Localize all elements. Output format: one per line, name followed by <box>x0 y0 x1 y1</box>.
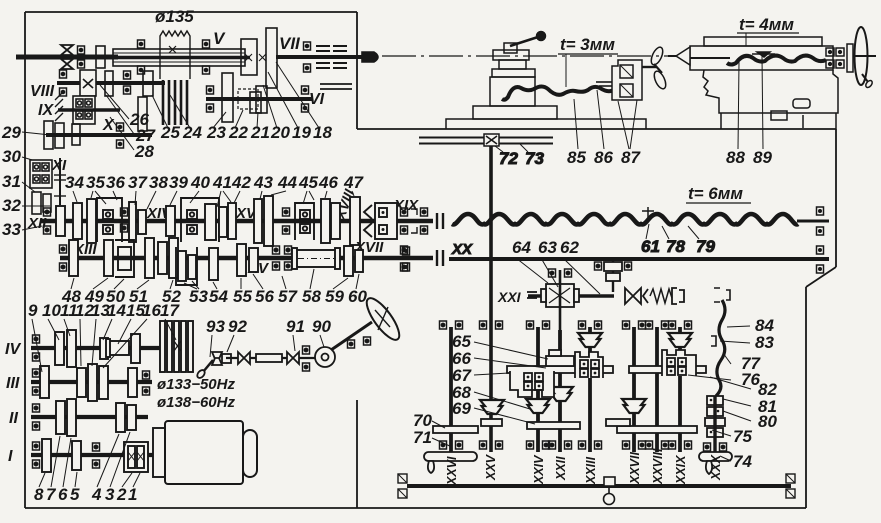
lube capsule XXX <box>699 452 732 474</box>
leader 67 <box>474 373 509 375</box>
top plate <box>704 37 822 46</box>
svg-text:ø138−60Hz: ø138−60Hz <box>157 394 235 411</box>
hollow shaft 58 <box>292 248 340 269</box>
worm vertical shaft <box>559 270 562 330</box>
svg-text:92: 92 <box>228 317 247 336</box>
leader 66 <box>474 358 546 368</box>
bearing block XI <box>30 160 52 188</box>
XXVIII top bearings <box>646 321 669 329</box>
svg-text:t= 3мм: t= 3мм <box>560 35 615 54</box>
cone clutch XIX chevrons <box>364 205 372 237</box>
gear III c <box>88 364 97 401</box>
XXVII bottom bearings <box>623 441 646 449</box>
leader 86 <box>597 90 604 149</box>
gear 34 <box>73 203 82 239</box>
rod to wing nut <box>642 66 656 68</box>
feed rod right bearings <box>817 246 824 273</box>
flexible clamp mid <box>711 336 716 346</box>
rack right end marks <box>786 474 795 498</box>
XXIV top bearings <box>527 321 550 329</box>
gear XII left <box>56 206 65 236</box>
svg-text:29: 29 <box>1 123 21 142</box>
leader 84 <box>727 326 750 327</box>
svg-text:86: 86 <box>594 148 613 167</box>
svg-text:18: 18 <box>313 123 332 142</box>
flexible shaft XXX wavy <box>716 300 725 396</box>
svg-text:58: 58 <box>302 287 321 306</box>
numbers 34-47 <box>65 173 364 192</box>
cross slide body <box>490 77 535 106</box>
leadscrew end line <box>797 220 829 223</box>
svg-text:4: 4 <box>91 485 102 504</box>
shaft XXVIII <box>655 327 659 452</box>
u-joint 1 <box>238 352 250 364</box>
motor clutch block <box>124 442 148 472</box>
gear under spindle end <box>250 92 261 113</box>
handwheel plate <box>847 44 853 72</box>
tailstock screw wave t=4mm <box>727 56 826 65</box>
XXV bottom bearings <box>480 441 503 449</box>
shift frame 36 <box>97 198 122 242</box>
rack bar XXVI <box>433 426 478 433</box>
spindle nose flange <box>241 39 266 75</box>
VIII bearing <box>60 70 67 96</box>
shaft XII-XIV-XVI-XVIII <box>40 219 433 223</box>
svg-text:III: III <box>6 375 20 392</box>
enclosure border left <box>24 12 26 508</box>
gear 51 <box>145 238 154 278</box>
shaft XXIX <box>678 327 682 452</box>
svg-text:7: 7 <box>46 485 57 504</box>
leader 72 <box>495 146 503 152</box>
flexible top bracket <box>714 288 730 302</box>
numbers 9-17 <box>28 301 180 320</box>
body lock detail <box>793 99 810 108</box>
gear on VIII mid <box>105 71 113 96</box>
slider tab 66 <box>546 350 574 366</box>
leaders 26 27 28 <box>100 85 134 150</box>
rack bar right <box>617 426 697 433</box>
svg-text:ø135: ø135 <box>155 7 194 26</box>
gearbox block left <box>510 371 554 397</box>
wheel bearing marks <box>348 337 371 348</box>
tailstock body <box>703 70 838 129</box>
handwheel ellipse <box>361 294 404 344</box>
rack shaft <box>407 484 791 488</box>
bevel bowtie right <box>625 288 641 304</box>
svg-text:8: 8 <box>34 485 44 504</box>
svg-text:88: 88 <box>726 148 745 167</box>
leader 62 <box>563 258 600 294</box>
XXVI top bearings <box>440 321 463 329</box>
leaders 48-60 <box>71 278 74 289</box>
shaft VIII <box>57 81 165 85</box>
leader 87b <box>630 100 637 149</box>
belt lines to motor <box>163 80 187 125</box>
crank lever <box>510 37 538 46</box>
X right bearing <box>117 123 124 148</box>
cone clutch XIX box <box>375 203 397 239</box>
svg-text:38: 38 <box>149 173 168 192</box>
svg-text:54: 54 <box>209 287 228 306</box>
shaft XXVII <box>632 327 636 452</box>
leader 92 <box>227 335 234 352</box>
leader 85 <box>574 99 578 149</box>
motor body <box>165 421 243 484</box>
II left bearing <box>33 404 40 430</box>
gears on X <box>44 121 80 149</box>
XXX bottom bearings <box>704 443 727 451</box>
leader 77 <box>723 353 731 364</box>
gear 43 <box>254 199 262 243</box>
vertical drive shaft XXV upper <box>489 146 493 296</box>
center arrow tip <box>362 52 378 62</box>
quill screw shaft line <box>690 57 730 59</box>
feed rod XX <box>449 257 829 261</box>
shaft XXV lower <box>489 296 493 452</box>
leader 79 <box>688 226 699 239</box>
XXIV bottom bearings <box>527 441 550 449</box>
hub circle <box>315 347 335 367</box>
svg-text:20: 20 <box>270 123 290 142</box>
svg-text:78: 78 <box>666 237 685 256</box>
saddle base <box>473 106 557 119</box>
gear 54 <box>209 248 218 280</box>
frame 53 <box>176 247 197 285</box>
top slide <box>492 69 535 77</box>
leader 63 <box>541 258 558 287</box>
diagonal shaft to wheel <box>331 322 372 350</box>
bracket stop <box>672 288 684 304</box>
svg-text:XXII: XXII <box>554 456 568 481</box>
numbers 88 89 <box>726 148 772 167</box>
leader 82 <box>710 377 751 389</box>
shaft VII <box>276 55 362 59</box>
shaft XXIV <box>536 327 540 452</box>
shaft VI <box>206 97 313 101</box>
gear II b <box>67 399 76 436</box>
XXII mid hat <box>549 387 573 401</box>
gear 42a <box>228 203 236 239</box>
gears above on stub shaft <box>604 259 622 292</box>
svg-text:VII: VII <box>279 34 301 53</box>
worm shaft top bearing <box>549 269 572 277</box>
svg-text:40: 40 <box>190 173 210 192</box>
bearing mid2 <box>283 208 290 234</box>
svg-text:45: 45 <box>298 173 318 192</box>
XXIII top hat <box>578 333 602 347</box>
ribbed clutch block <box>160 321 193 372</box>
motor end cap <box>243 430 257 477</box>
leader 93 <box>210 335 212 357</box>
feed nut bracket 87 <box>612 60 642 100</box>
svg-text:3: 3 <box>105 485 115 504</box>
svg-text:42: 42 <box>231 173 251 192</box>
enclosure border diagonal <box>806 267 836 287</box>
svg-text:XXI: XXI <box>497 289 522 305</box>
VII right bearing pair <box>304 42 311 72</box>
numbers 25 24 23 22 21 20 19 18 <box>160 123 332 142</box>
gear 47 <box>350 197 360 245</box>
gear 46a <box>321 199 330 243</box>
svg-text:ø133−50Hz: ø133−50Hz <box>157 376 235 393</box>
svg-text:43: 43 <box>253 173 273 192</box>
enclosure border right lower <box>805 287 807 508</box>
svg-text:80: 80 <box>758 412 777 431</box>
bearing mid1 <box>121 208 128 232</box>
svg-text:90: 90 <box>312 317 331 336</box>
enclosure border right upper <box>835 129 837 267</box>
rack pinion <box>604 477 616 505</box>
leader 73 <box>520 144 528 152</box>
clutch box 72 <box>484 134 499 146</box>
left bearing XIII <box>60 245 67 271</box>
svg-text:79: 79 <box>696 237 715 256</box>
spring zigzag <box>650 289 672 303</box>
svg-text:V: V <box>213 29 226 48</box>
svg-text:XXIII: XXIII <box>584 456 598 485</box>
gear 52a <box>158 242 167 274</box>
gear 40 inner <box>205 204 216 240</box>
gear IV a <box>55 332 64 365</box>
svg-text:61: 61 <box>641 237 660 256</box>
ground line under machines <box>357 128 836 130</box>
quill barrel <box>690 46 833 70</box>
frequency labels <box>157 376 235 411</box>
svg-text:57: 57 <box>278 287 298 306</box>
svg-text:47: 47 <box>343 173 364 192</box>
svg-text:64: 64 <box>512 238 531 257</box>
bracket marks XIX <box>411 209 417 233</box>
leader 69 <box>474 408 535 424</box>
spindle right bearing <box>203 40 210 74</box>
shaft IV <box>31 346 160 350</box>
numbers 8-1 <box>34 485 137 504</box>
gear 52b <box>169 238 178 278</box>
XXIX top hat <box>668 333 692 347</box>
enclosure border bottom <box>25 507 806 509</box>
gear I a <box>42 439 51 472</box>
belt pulley hourglass upper <box>61 45 73 55</box>
shaft XIII-XV-XVII <box>60 256 433 260</box>
numbers 85 86 87 <box>567 148 641 167</box>
enclosure border top <box>25 11 357 13</box>
telescopic tube <box>256 354 282 362</box>
gear on input shaft <box>96 46 105 68</box>
svg-text:XXIX: XXIX <box>674 455 688 485</box>
leadscrew wave t=6mm <box>452 214 798 224</box>
worm box <box>541 284 579 307</box>
svg-text:XXVI: XXVI <box>445 456 459 486</box>
svg-text:83: 83 <box>755 333 774 352</box>
clamp squares <box>826 48 844 68</box>
drum frame 50 <box>115 240 134 277</box>
svg-text:6: 6 <box>58 485 68 504</box>
gear 49 <box>104 240 113 276</box>
svg-text:IV: IV <box>5 341 21 358</box>
svg-text:16: 16 <box>142 301 161 320</box>
crank pivot <box>504 43 517 53</box>
numbers 93 92 91 90 <box>206 317 331 336</box>
leader 65 <box>474 342 548 359</box>
gear III b <box>77 368 86 397</box>
gear II a <box>56 401 65 434</box>
gear I b <box>72 441 81 470</box>
rack left end marks <box>398 474 407 498</box>
IV left bearing <box>33 335 40 361</box>
shaft IX <box>58 108 120 112</box>
shift frame 40 <box>181 198 219 242</box>
gear block below <box>32 192 51 214</box>
clamp stack <box>705 396 725 437</box>
leaders 23 22 21 20 19 18 <box>213 62 319 128</box>
shaft XXII <box>558 330 562 452</box>
svg-text:39: 39 <box>169 173 188 192</box>
gearbox block right <box>575 352 603 378</box>
gear 60 <box>355 250 363 272</box>
svg-text:t= 4мм: t= 4мм <box>739 15 794 34</box>
svg-text:XXX: XXX <box>709 454 723 481</box>
gearbox rail bar <box>507 366 613 373</box>
svg-text:t= 6мм: t= 6мм <box>688 184 743 203</box>
svg-text:21: 21 <box>250 123 270 142</box>
leader 75 <box>712 430 731 436</box>
XXIII top bearings <box>579 321 602 329</box>
gear 38 <box>138 210 146 234</box>
XXI shaft <box>528 294 614 297</box>
leaders 8-1 <box>39 473 45 487</box>
tall gear on VI <box>222 73 233 122</box>
svg-text:25: 25 <box>160 123 180 142</box>
svg-text:55: 55 <box>233 287 252 306</box>
svg-text:9: 9 <box>28 301 38 320</box>
svg-text:32: 32 <box>2 196 21 215</box>
leaders 25 24 <box>152 95 190 128</box>
XXIII bottom bearings <box>579 441 602 449</box>
svg-text:59: 59 <box>325 287 344 306</box>
svg-text:22: 22 <box>228 123 248 142</box>
XXIX bottom bearings <box>669 441 692 449</box>
shift frame 45 <box>295 203 314 240</box>
tool post mid <box>499 60 526 69</box>
XXIX top bearings <box>669 321 692 329</box>
gear 46b <box>331 203 340 239</box>
leader 68 <box>474 392 530 409</box>
right bearing XVII <box>401 246 408 271</box>
enclosure divider <box>356 12 358 129</box>
XXIV bottom hat <box>526 399 550 413</box>
leader 71 <box>432 438 452 447</box>
spindle V body <box>106 49 250 66</box>
III left bearing <box>33 369 40 395</box>
XXVII bottom hat <box>622 399 646 413</box>
numbers 48-60 <box>61 287 367 306</box>
svg-text:I: I <box>8 448 13 465</box>
bracket square a <box>620 65 633 78</box>
gear IV b <box>67 330 76 367</box>
svg-text:5: 5 <box>70 485 80 504</box>
shaft II <box>31 415 148 419</box>
body detail line <box>802 115 804 128</box>
block 40 bearings <box>187 210 197 234</box>
gear II d <box>127 405 136 430</box>
gear on VIII right <box>143 71 153 96</box>
feed rod left bearing pair <box>403 247 410 271</box>
svg-text:44: 44 <box>277 173 297 192</box>
svg-text:XX: XX <box>451 241 473 258</box>
IX wall hatching <box>55 92 63 121</box>
bearing I mid <box>93 443 100 468</box>
svg-text:17: 17 <box>160 301 180 320</box>
gear 53a <box>178 251 186 281</box>
gear IV c <box>100 338 108 359</box>
gear 48 <box>69 240 78 276</box>
XXV top bearings <box>480 321 503 329</box>
spindle left bearing <box>138 40 145 74</box>
leader 70 <box>432 421 445 428</box>
stub shaft bearings <box>595 262 632 270</box>
VI right bearing <box>302 86 309 112</box>
svg-text:46: 46 <box>318 173 338 192</box>
gear III d <box>99 366 108 399</box>
screw pawl <box>752 52 775 57</box>
gear 39 <box>166 206 175 236</box>
leader 88 <box>738 62 739 149</box>
pulley block o135 <box>160 31 190 79</box>
gear IV d <box>131 334 140 363</box>
bevel pair 92 <box>212 352 231 365</box>
svg-text:23: 23 <box>206 123 226 142</box>
spindle big gear <box>266 28 277 88</box>
t=3mm label <box>558 35 618 87</box>
nut marks above wave <box>596 82 615 86</box>
svg-text:85: 85 <box>567 148 586 167</box>
gear 44 <box>264 196 273 246</box>
XXV bottom bar <box>481 419 502 426</box>
gearbox rail right <box>629 366 706 373</box>
t=4mm label <box>737 15 799 46</box>
leadscrew right bearings <box>817 207 824 235</box>
leader 87a <box>618 101 629 149</box>
crank knob <box>537 32 546 41</box>
input shaft <box>16 55 118 60</box>
gearbox block right2 <box>662 350 696 376</box>
leader 89 <box>762 56 763 149</box>
rack bar mid <box>527 422 580 429</box>
gear III e <box>128 368 137 397</box>
svg-text:60: 60 <box>348 287 367 306</box>
chevron <box>643 289 648 303</box>
shaft XXIII <box>588 327 592 452</box>
shaft I <box>31 453 168 457</box>
XXVII top bearings <box>623 321 646 329</box>
svg-text:1: 1 <box>128 485 137 504</box>
leader 74 <box>720 456 731 461</box>
XXI tick marks <box>527 292 537 298</box>
svg-text:VIII: VIII <box>30 83 55 100</box>
svg-text:75: 75 <box>733 427 752 446</box>
svg-text:XXV: XXV <box>484 453 498 481</box>
center point <box>668 47 690 65</box>
svg-text:XXIV: XXIV <box>532 454 546 485</box>
leaders 29-33 <box>22 132 60 230</box>
crank lever 93 <box>196 360 213 379</box>
XIX right bearings <box>401 208 428 234</box>
svg-text:62: 62 <box>560 238 579 257</box>
leader 80 <box>723 411 751 421</box>
svg-text:14: 14 <box>107 301 126 320</box>
svg-text:37: 37 <box>128 173 148 192</box>
